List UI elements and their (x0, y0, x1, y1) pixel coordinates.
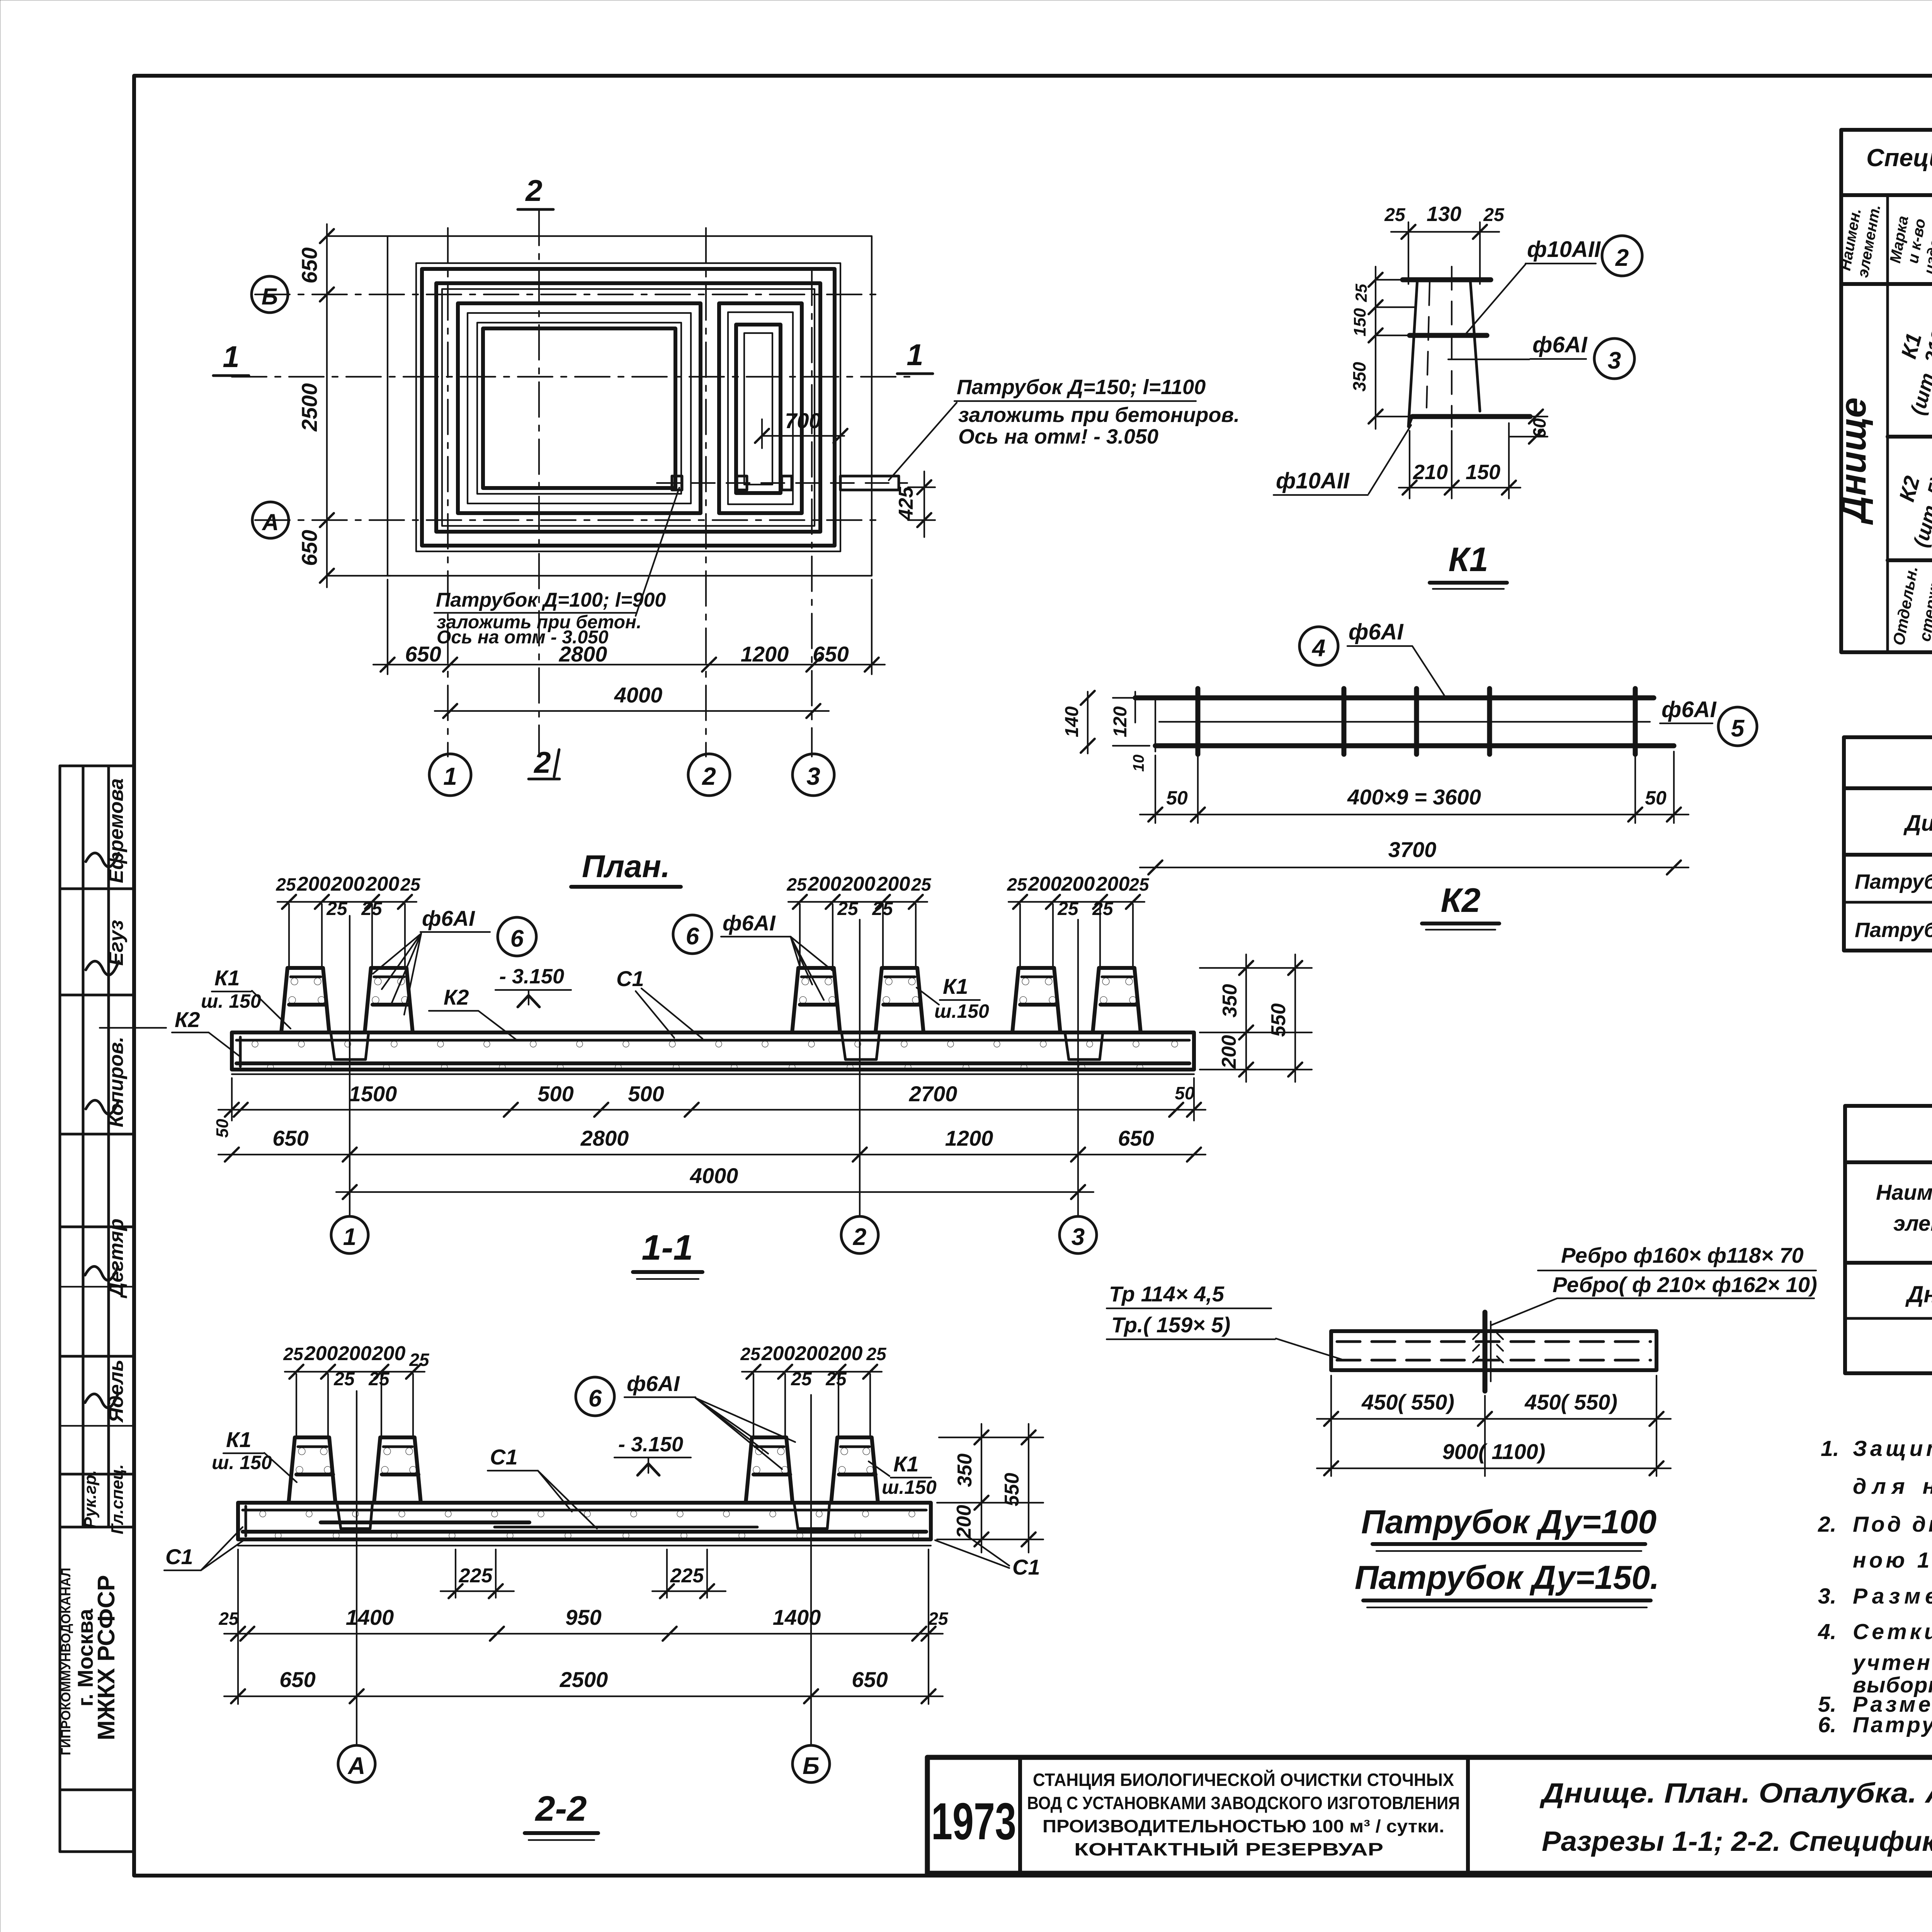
svg-text:1: 1 (223, 340, 239, 374)
svg-text:25: 25 (872, 899, 893, 919)
axis circle B (252, 276, 288, 313)
svg-text:25: 25 (928, 1609, 949, 1629)
svg-text:3: 3 (1608, 347, 1621, 374)
svg-text:25: 25 (1384, 205, 1406, 225)
recess pair1 (331, 1032, 369, 1060)
svg-text:ГИПРОКОММУНВОДОКАНАЛ: ГИПРОКОММУНВОДОКАНАЛ (59, 1568, 73, 1755)
svg-text:Сетки С1- сварные по ГОСТ: Сетки С1- сварные по ГОСТу 8478 - 66 мар… (1853, 1619, 1932, 1644)
svg-text:25: 25 (368, 1369, 390, 1389)
middle bar (1410, 333, 1487, 338)
dim row 50/400x9=3600/50 (1155, 755, 1156, 823)
rotated column headers (1837, 201, 1932, 281)
svg-text:Патрубок Д=100; l=900: Патрубок Д=100; l=900 (436, 589, 666, 611)
crossbars (1196, 689, 1201, 754)
svg-text:К1: К1 (1448, 540, 1488, 578)
svg-text:План.: План. (582, 849, 670, 884)
svg-text:2: 2 (533, 745, 551, 779)
pedestal P1b (365, 968, 413, 1032)
svg-text:200: 200 (304, 1342, 338, 1365)
svg-text:25: 25 (409, 1350, 430, 1370)
left end rebar hooks (239, 1037, 242, 1066)
svg-text:650: 650 (279, 1667, 315, 1692)
svg-text:Егуз: Егуз (105, 920, 128, 966)
svg-text:3: 3 (1071, 1224, 1085, 1250)
svg-text:3: 3 (806, 762, 820, 790)
svg-text:2: 2 (853, 1224, 866, 1250)
recess pair2 (842, 1032, 879, 1060)
bottom dim row2 (218, 1154, 1206, 1155)
svg-text:Гл.спец.: Гл.спец. (108, 1464, 127, 1534)
svg-text:Ребро( ф 210× ф162× 10): Ребро( ф 210× ф162× 10) (1553, 1272, 1817, 1297)
svg-text:ф10АII: ф10АII (1527, 237, 1601, 262)
extension lines + dims pair1 (288, 904, 290, 967)
svg-text:200: 200 (1028, 873, 1062, 895)
svg-text:С1: С1 (616, 966, 644, 991)
bottom dim row 650/2800/1200/650 (387, 580, 388, 674)
svg-text:ВОД С УСТАНОВКАМИ ЗАВОДСКОГО: ВОД С УСТАНОВКАМИ ЗАВОДСКОГО ИЗГОТОВЛЕНИ… (1027, 1793, 1460, 1813)
section cut 1-1 horizontal (232, 376, 912, 378)
svg-text:2800: 2800 (580, 1126, 629, 1150)
weld hatch (1473, 1333, 1479, 1339)
svg-text:50: 50 (213, 1119, 232, 1138)
svg-text:1400: 1400 (346, 1605, 394, 1629)
foundation slab edge double (416, 263, 840, 551)
svg-text:Патрубок Д=150; l=1100: Патрубок Д=150; l=1100 (957, 376, 1206, 399)
svg-text:25: 25 (333, 1369, 355, 1389)
pedestal Q1a (289, 1437, 335, 1503)
svg-text:1: 1 (343, 1224, 356, 1250)
svg-text:2700: 2700 (909, 1082, 957, 1106)
trapezoid outline (1408, 280, 1417, 427)
svg-text:ною 100 мм из бетона ма: ною 100 мм из бетона марки 50. (1853, 1548, 1932, 1573)
svg-text:350: 350 (954, 1454, 976, 1487)
svg-text:225: 225 (670, 1565, 704, 1587)
svg-text:25: 25 (400, 874, 421, 895)
svg-text:Патрубок: Патрубок (1855, 870, 1932, 893)
svg-text:4000: 4000 (690, 1163, 738, 1188)
svg-text:Ядель: Ядель (105, 1360, 128, 1423)
pedestal Q2b (831, 1437, 878, 1503)
svg-text:150: 150 (1466, 461, 1500, 484)
axis verticals (349, 916, 350, 1216)
svg-text:550: 550 (1267, 1003, 1290, 1037)
svg-text:К1: К1 (226, 1427, 252, 1452)
svg-text:25: 25 (1129, 874, 1150, 895)
extension lines + dims pair3 (1019, 904, 1021, 967)
svg-text:25: 25 (825, 1369, 847, 1389)
middle rebar strip (C1 inner) (321, 1520, 529, 1524)
svg-text:СТАНЦИЯ БИОЛОГИЧЕСКОЙ ОЧИСТК: СТАНЦИЯ БИОЛОГИЧЕСКОЙ ОЧИСТКИ СТОЧНЫХ (1033, 1770, 1454, 1790)
left stamp strip (59, 766, 134, 1852)
svg-text:3.: 3. (1818, 1584, 1837, 1609)
svg-text:4.: 4. (1818, 1619, 1837, 1644)
svg-text:Под днищем устраивается: Под днищем устраивается бетонная подгото… (1853, 1512, 1932, 1537)
svg-text:Рук.гр.: Рук.гр. (81, 1470, 100, 1529)
right dim 60 (1530, 416, 1548, 417)
table: vyborka patrubkov (1844, 737, 1932, 951)
left dims 25/150/350 (1375, 267, 1376, 429)
dim row2 650/2500/650 (224, 1696, 943, 1697)
svg-text:25: 25 (218, 1609, 239, 1629)
title band (1841, 193, 1932, 197)
svg-text:Диаметр: Диаметр (1903, 811, 1932, 836)
svg-text:550: 550 (1001, 1473, 1023, 1507)
svg-text:А: А (261, 509, 279, 535)
svg-text:25: 25 (837, 899, 859, 919)
svg-text:1.: 1. (1821, 1436, 1839, 1461)
left dims 140/120/10 (1113, 697, 1150, 699)
svg-text:2: 2 (1615, 245, 1629, 271)
pedestal P1a (281, 968, 329, 1032)
svg-text:- 3.150: - 3.150 (618, 1433, 683, 1456)
svg-text:2500: 2500 (297, 383, 321, 432)
svg-text:25: 25 (1057, 899, 1079, 919)
extension + dims pairQ1 (296, 1374, 297, 1436)
svg-text:450( 550): 450( 550) (1361, 1390, 1454, 1414)
svg-text:К1: К1 (943, 974, 968, 998)
svg-text:С1: С1 (165, 1544, 193, 1569)
pedestal P2a (792, 968, 840, 1032)
svg-text:Ось на отм - 3.050: Ось на отм - 3.050 (437, 627, 609, 648)
left dim chain 650/2500/650 (326, 224, 328, 587)
middle thin line (1159, 721, 1650, 723)
svg-text:650: 650 (1118, 1126, 1154, 1150)
svg-text:К2: К2 (444, 985, 469, 1009)
svg-text:К2: К2 (1440, 881, 1480, 919)
svg-text:Ось на отм! - 3.050: Ось на отм! - 3.050 (958, 425, 1158, 448)
left end box (1134, 692, 1136, 723)
bottom bar (1155, 743, 1674, 748)
svg-text:6.: 6. (1818, 1713, 1837, 1737)
svg-text:25: 25 (866, 1344, 887, 1364)
bottom dim row 4000 (435, 710, 829, 712)
svg-text:25: 25 (1483, 205, 1505, 225)
svg-text:ш.150: ш.150 (934, 1000, 989, 1022)
axis circles (331, 1216, 368, 1253)
svg-text:200: 200 (761, 1342, 795, 1365)
pit outline thin (388, 236, 872, 576)
top bar (1403, 277, 1491, 282)
svg-text:650: 650 (297, 530, 321, 566)
wall outer double (436, 283, 820, 532)
svg-text:6: 6 (510, 925, 524, 952)
slab (232, 1032, 1194, 1070)
svg-text:10: 10 (1130, 755, 1147, 772)
svg-text:50: 50 (1175, 1083, 1195, 1103)
svg-text:К2: К2 (1894, 473, 1924, 504)
svg-text:25: 25 (740, 1344, 761, 1364)
bottom dim row1 (231, 1078, 233, 1121)
label circle 4 (1299, 627, 1338, 665)
svg-text:К2: К2 (175, 1007, 200, 1032)
svg-text:ПРОИЗВОДИТЕЛЬНОСТЬЮ 100 м³ /: ПРОИЗВОДИТЕЛЬНОСТЬЮ 100 м³ / сутки. (1043, 1816, 1444, 1836)
svg-text:350: 350 (1349, 362, 1369, 391)
svg-text:200: 200 (795, 1342, 829, 1365)
svg-text:Размеры сеток даны по: Размеры сеток даны по осям крайних стерж… (1853, 1584, 1932, 1609)
svg-text:140: 140 (1062, 706, 1082, 737)
svg-text:200: 200 (1096, 873, 1130, 895)
top dims 25/130/25 (1408, 222, 1409, 284)
svg-text:650: 650 (297, 247, 321, 283)
dim row 3700 (1140, 867, 1689, 868)
axis lines (255, 294, 881, 295)
svg-text:350: 350 (1219, 984, 1241, 1018)
pedestal Q1b (374, 1437, 421, 1503)
fan right pair (673, 915, 712, 954)
pedestal P3b (1093, 968, 1141, 1032)
svg-text:25: 25 (786, 874, 807, 895)
svg-text:Днище: Днище (1833, 397, 1874, 525)
svg-text:60: 60 (1529, 418, 1549, 438)
svg-text:25: 25 (791, 1369, 812, 1389)
svg-text:200: 200 (808, 873, 842, 895)
top bar (1135, 696, 1654, 701)
extension lines + dims pair2 (799, 904, 801, 967)
svg-text:ф6АI: ф6АI (627, 1371, 680, 1396)
svg-text:200: 200 (366, 873, 400, 895)
dims (1330, 1376, 1332, 1476)
column header verticals (1886, 195, 1889, 652)
svg-text:650: 650 (813, 642, 849, 666)
svg-text:950: 950 (565, 1605, 601, 1629)
bottom hook bar (1412, 414, 1530, 419)
svg-text:500: 500 (628, 1082, 664, 1106)
svg-text:1: 1 (443, 762, 457, 790)
rebar dots top (252, 1041, 1178, 1070)
pedestal Q2a (746, 1437, 793, 1503)
svg-text:450( 550): 450( 550) (1524, 1390, 1617, 1414)
svg-text:200: 200 (338, 1342, 372, 1365)
bottom dim row3 4000 (336, 1191, 1094, 1193)
dim row1 25/1400/950/1400/25 (237, 1549, 239, 1704)
svg-text:Тр 114× 4,5: Тр 114× 4,5 (1109, 1282, 1225, 1306)
center dashed (1451, 267, 1452, 427)
svg-text:1500: 1500 (349, 1082, 397, 1106)
svg-text:1400: 1400 (773, 1605, 821, 1629)
svg-text:130: 130 (1427, 202, 1461, 226)
svg-text:КОНТАКТНЫЙ РЕЗЕРВУАР: КОНТАКТНЫЙ РЕЗЕРВУАР (1074, 1839, 1383, 1859)
svg-text:Тр.( 159× 5): Тр.( 159× 5) (1111, 1313, 1230, 1337)
225 dims (455, 1549, 456, 1598)
svg-text:2500: 2500 (560, 1667, 608, 1692)
svg-text:425: 425 (895, 486, 917, 521)
svg-text:К1: К1 (214, 966, 240, 990)
svg-text:4: 4 (1311, 635, 1325, 662)
svg-text:С1: С1 (490, 1445, 518, 1469)
extension + dims pairQ2 (753, 1374, 754, 1436)
svg-text:650: 650 (405, 642, 441, 666)
svg-text:50: 50 (1645, 787, 1667, 809)
svg-text:25: 25 (911, 874, 932, 895)
svg-text:Патрубок Ду=150.: Патрубок Ду=150. (1355, 1559, 1659, 1596)
pipe body (1331, 1331, 1656, 1370)
svg-text:4000: 4000 (614, 683, 663, 707)
rib (1483, 1312, 1488, 1391)
svg-text:200: 200 (1218, 1035, 1240, 1069)
svg-text:500: 500 (537, 1082, 573, 1106)
slab (238, 1503, 931, 1539)
svg-text:200: 200 (372, 1342, 406, 1365)
left chamber (458, 303, 701, 513)
svg-text:ф6АI: ф6АI (422, 906, 475, 930)
svg-text:200: 200 (953, 1505, 975, 1539)
svg-text:2: 2 (525, 173, 542, 207)
svg-text:Патрубок: Патрубок (1855, 918, 1932, 942)
svg-text:учтены в выборке материало: учтены в выборке материалов на данном ли… (1852, 1650, 1932, 1675)
svg-text:Днище. План. Опалубка. Арм: Днище. План. Опалубка. Армирование. (1539, 1778, 1932, 1809)
svg-text:2.: 2. (1818, 1512, 1837, 1537)
table: vyborka materialov (1845, 1106, 1932, 1373)
recess pair3 (1065, 1032, 1103, 1060)
svg-text:Патрубок Ду=100: Патрубок Ду=100 (1361, 1503, 1656, 1541)
svg-text:50: 50 (1166, 787, 1188, 809)
svg-text:заложить при бетониров.: заложить при бетониров. (958, 403, 1240, 427)
svg-text:150: 150 (1350, 308, 1369, 337)
svg-text:225: 225 (459, 1565, 493, 1587)
svg-text:900( 1100): 900( 1100) (1442, 1439, 1546, 1464)
svg-text:Б: Б (262, 284, 278, 310)
svg-text:Б: Б (803, 1753, 820, 1779)
svg-text:1200: 1200 (945, 1126, 993, 1150)
axis circle A (252, 502, 289, 538)
svg-text:Разрезы 1-1; 2-2. Спецификац: Разрезы 1-1; 2-2. Спецификация. Выборки. (1542, 1826, 1932, 1857)
svg-text:ф6АI: ф6АI (1662, 697, 1717, 722)
svg-text:200: 200 (331, 873, 365, 895)
svg-text:С1: С1 (1012, 1555, 1040, 1579)
svg-text:200: 200 (829, 1342, 863, 1365)
right dim chain (939, 1437, 1043, 1438)
svg-text:А: А (347, 1753, 366, 1779)
svg-text:1-1: 1-1 (642, 1228, 693, 1267)
axis circles 1 2 3 bottom (429, 754, 471, 796)
svg-text:2: 2 (702, 762, 716, 790)
svg-text:650: 650 (852, 1667, 888, 1692)
svg-text:200: 200 (297, 873, 331, 895)
svg-text:3700: 3700 (1388, 837, 1437, 862)
svg-text:ф6АI: ф6АI (1349, 619, 1404, 645)
svg-text:650: 650 (272, 1126, 308, 1150)
svg-text:120: 120 (1110, 706, 1131, 737)
svg-text:25: 25 (283, 1344, 304, 1364)
svg-text:25: 25 (1007, 874, 1027, 895)
pedestal P3a (1012, 968, 1060, 1032)
svg-text:400×9 = 3600: 400×9 = 3600 (1347, 785, 1481, 809)
pipe stub right + 700/425 dims (657, 482, 907, 484)
svg-text:1973: 1973 (931, 1792, 1016, 1850)
right chamber (719, 303, 802, 513)
notes (primechanija) (1818, 1397, 1932, 1756)
svg-text:ш. 150: ш. 150 (212, 1452, 272, 1473)
svg-text:Защитный слой бетона для: Защитный слой бетона для верхней арматур… (1853, 1436, 1932, 1461)
svg-text:элемента: элемента (1893, 1211, 1932, 1235)
svg-text:210: 210 (1413, 461, 1448, 484)
svg-text:25: 25 (326, 899, 348, 919)
svg-text:5: 5 (1731, 715, 1745, 742)
bottom dims 210/150 (1409, 431, 1410, 498)
svg-text:700: 700 (785, 408, 821, 433)
title block (927, 1757, 1932, 1873)
svg-text:Наименование: Наименование (1876, 1180, 1932, 1204)
svg-text:25: 25 (1352, 284, 1370, 302)
svg-text:1200: 1200 (741, 642, 789, 666)
svg-text:200: 200 (1061, 873, 1095, 895)
svg-text:2-2: 2-2 (535, 1789, 587, 1828)
svg-text:25: 25 (1092, 899, 1114, 919)
svg-text:К1: К1 (893, 1452, 919, 1476)
axis verticals (356, 1391, 357, 1745)
specification table (top right) (1833, 130, 1932, 652)
svg-text:6: 6 (588, 1385, 602, 1412)
svg-text:Спецификация: Спецификация (1866, 144, 1932, 172)
svg-text:Ребро ф160× ф118× 70: Ребро ф160× ф118× 70 (1561, 1243, 1804, 1267)
recess pairQ2 (794, 1503, 830, 1529)
svg-text:25: 25 (361, 899, 383, 919)
right dim chain 350/200/550 (1200, 967, 1312, 969)
svg-text:г. Москва: г. Москва (73, 1609, 97, 1707)
svg-text:ш.150: ш.150 (882, 1476, 937, 1498)
svg-text:200: 200 (876, 873, 910, 895)
svg-text:200: 200 (842, 873, 876, 895)
svg-text:- 3.150: - 3.150 (499, 965, 564, 988)
svg-text:Днище: Днище (1905, 1281, 1932, 1307)
svg-text:25: 25 (276, 874, 296, 895)
recess pairQ1 (337, 1503, 372, 1529)
svg-text:Дегтяр: Дегтяр (105, 1219, 128, 1299)
svg-text:для нижней арматуры - 3: для нижней арматуры - 35 мм (1853, 1474, 1932, 1499)
header bottom (1841, 282, 1932, 286)
pedestal P2b (876, 968, 923, 1032)
section cut 2-2 vertical (538, 211, 540, 753)
axis circles (338, 1745, 375, 1782)
svg-text:6: 6 (686, 923, 699, 950)
svg-text:ф6АI: ф6АI (723, 911, 776, 935)
svg-text:ф10АII: ф10АII (1276, 468, 1350, 493)
svg-text:1: 1 (906, 338, 923, 372)
svg-text:ф6АI: ф6АI (1532, 332, 1588, 357)
svg-text:ш. 150: ш. 150 (201, 990, 261, 1012)
